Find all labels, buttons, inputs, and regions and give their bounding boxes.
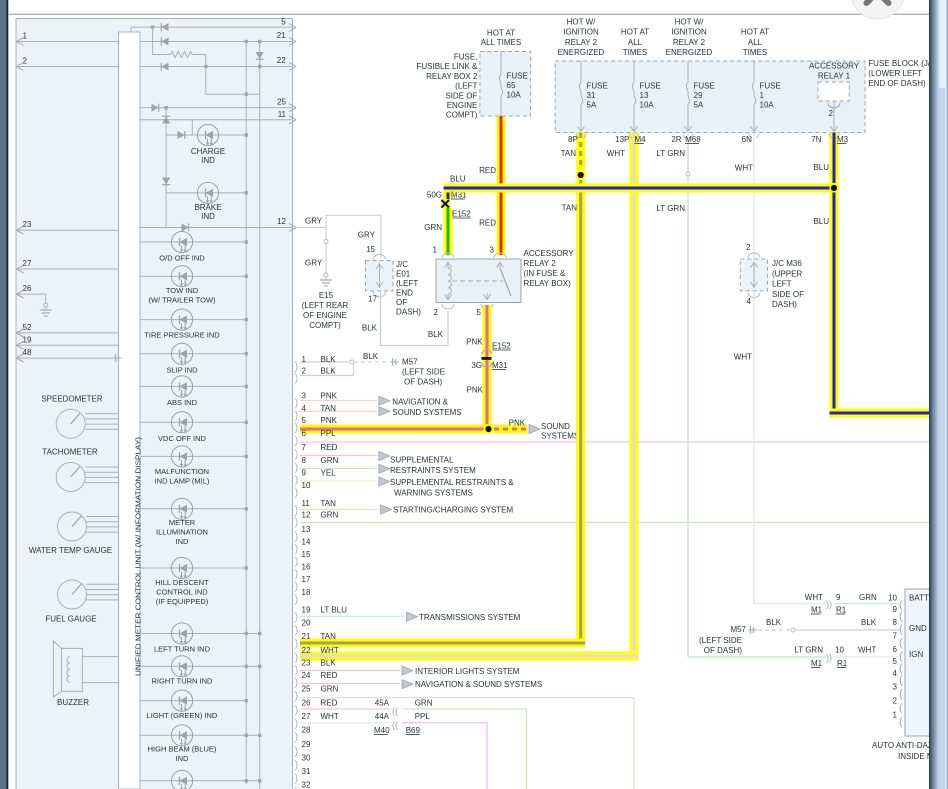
- svg-text:24: 24: [302, 671, 311, 680]
- wire WHT horizontal to pin22: [300, 652, 639, 661]
- svg-text:GRY: GRY: [305, 259, 323, 268]
- ground (pin 26): [44, 303, 48, 307]
- svg-text:TAN: TAN: [321, 499, 337, 508]
- svg-text:FUSE: FUSE: [760, 82, 781, 91]
- svg-text:O/D OFF IND: O/D OFF IND: [159, 254, 205, 263]
- svg-text:1: 1: [302, 355, 307, 364]
- svg-text:FUSE: FUSE: [694, 82, 715, 91]
- svg-text:LT GRN: LT GRN: [656, 204, 685, 213]
- svg-text:(: (: [899, 702, 903, 714]
- svg-text:(: (: [899, 624, 903, 636]
- svg-text:1: 1: [760, 91, 765, 100]
- svg-text:RED: RED: [321, 443, 338, 452]
- svg-text:(: (: [899, 716, 903, 728]
- svg-text:M31: M31: [492, 361, 508, 370]
- svg-text:ILLUMINATION: ILLUMINATION: [156, 528, 208, 537]
- svg-text:ENERGIZED: ENERGIZED: [558, 48, 605, 57]
- svg-text:FUSE: FUSE: [587, 82, 608, 91]
- svg-text:(: (: [899, 663, 903, 675]
- svg-text:HOT W/: HOT W/: [567, 18, 597, 27]
- svg-text:M1: M1: [811, 659, 823, 668]
- svg-text:GRY: GRY: [358, 231, 376, 240]
- svg-text:(UPPER: (UPPER: [772, 269, 802, 278]
- svg-text:): ): [295, 543, 299, 555]
- wire pin3 PNK: [300, 400, 377, 402]
- svg-text:SPEEDOMETER: SPEEDOMETER: [41, 395, 103, 404]
- svg-text:BUZZER: BUZZER: [57, 698, 89, 707]
- svg-text:LT GRN: LT GRN: [656, 149, 685, 158]
- wire BLU from 7N: [830, 133, 839, 189]
- svg-text:FUSE: FUSE: [507, 72, 528, 81]
- svg-text:): ): [295, 505, 299, 517]
- fuse block pin brackets: [576, 134, 586, 139]
- svg-text:17: 17: [368, 295, 377, 304]
- svg-text:GRN: GRN: [859, 593, 877, 602]
- diode D6 on pin12 line: [182, 223, 189, 231]
- svg-text:13P: 13P: [615, 135, 629, 144]
- svg-text:): ): [295, 422, 299, 434]
- diode D1 on pin5 line: [161, 23, 168, 31]
- svg-text:ACCESSORY: ACCESSORY: [809, 62, 860, 71]
- svg-text:4: 4: [747, 297, 752, 306]
- bus vertical left x166: [165, 108, 167, 228]
- svg-text:INTERIOR LIGHTS SYSTEM: INTERIOR LIGHTS SYSTEM: [415, 667, 520, 676]
- svg-text:GRN: GRN: [321, 456, 339, 465]
- wire pin27 WHT to connector: [300, 722, 391, 724]
- lamp TIRE PRESSURE IND: [140, 319, 246, 321]
- svg-text:FUSE,: FUSE,: [454, 53, 478, 62]
- wire staircase: [206, 55, 260, 95]
- svg-text:9: 9: [836, 593, 841, 602]
- svg-text:): ): [295, 581, 299, 593]
- wire BLK dashed to M57: [354, 361, 388, 363]
- svg-text:LT BLU: LT BLU: [321, 606, 348, 615]
- wire WHT from 13P: [630, 133, 639, 657]
- wire pin21 line: [16, 41, 293, 43]
- svg-text:11: 11: [278, 110, 287, 119]
- svg-text:6N: 6N: [742, 135, 752, 144]
- svg-text:): ): [295, 516, 299, 528]
- svg-text:IND LAMP (MIL): IND LAMP (MIL): [155, 477, 210, 486]
- junction J/C E01: [374, 255, 386, 298]
- svg-text:IND: IND: [176, 754, 190, 763]
- svg-text:14: 14: [302, 538, 311, 547]
- svg-text:GRN: GRN: [415, 699, 433, 708]
- svg-text:WHT: WHT: [734, 353, 752, 362]
- svg-text:(LEFT: (LEFT: [396, 279, 418, 288]
- wire pin25 GRN: [300, 698, 634, 789]
- diode D7 up on bus: [162, 116, 170, 123]
- arrow supplemental restraints 2: [379, 464, 390, 473]
- svg-text:GRN: GRN: [321, 685, 339, 694]
- wire BLU corner down: [444, 184, 453, 200]
- svg-text:): ): [295, 474, 299, 486]
- svg-text:): ): [295, 624, 299, 636]
- svg-text:1: 1: [23, 32, 28, 41]
- svg-text:J/C: J/C: [396, 260, 408, 269]
- svg-text:IND: IND: [201, 156, 215, 165]
- diode D3 on pin22 line: [161, 62, 168, 70]
- svg-text:27: 27: [23, 259, 32, 268]
- svg-text:(LEFT SIDE: (LEFT SIDE: [699, 636, 742, 645]
- svg-text:): ): [295, 637, 299, 649]
- gauge WATER TEMP GAUGE: [86, 516, 119, 518]
- svg-text:WHT: WHT: [735, 164, 753, 173]
- svg-text:M4: M4: [635, 135, 647, 144]
- svg-text:25: 25: [277, 98, 286, 107]
- wire link line11 to charge: [191, 120, 193, 135]
- svg-text:): ): [295, 449, 299, 461]
- gauge FUEL GAUGE: [86, 583, 119, 585]
- lamp bottom indicator: [140, 780, 260, 782]
- svg-text:27: 27: [302, 712, 311, 721]
- wire pin12 GRN long: [300, 522, 931, 524]
- svg-text:OF DASH): OF DASH): [404, 378, 443, 387]
- svg-text:WHT: WHT: [858, 646, 876, 655]
- svg-text:3: 3: [893, 683, 898, 692]
- wire WHT from J/C M36 pin4 to mirror: [754, 291, 826, 604]
- svg-text:23: 23: [23, 220, 32, 229]
- svg-text:52: 52: [23, 323, 32, 332]
- wire GRY pin12 to junction: [296, 227, 326, 229]
- lamp SLIP IND: [140, 353, 246, 355]
- svg-text:DASH): DASH): [396, 308, 421, 317]
- svg-text:RELAY 1: RELAY 1: [818, 72, 851, 81]
- svg-text:TIMES: TIMES: [623, 48, 647, 57]
- svg-text:E01: E01: [396, 270, 411, 279]
- svg-text:LEFT: LEFT: [772, 280, 792, 289]
- wire BLK from J/C E01 pin17: [381, 291, 449, 346]
- svg-text:11: 11: [302, 499, 311, 508]
- svg-text:31: 31: [587, 91, 596, 100]
- svg-text:15: 15: [302, 550, 311, 559]
- svg-text:5: 5: [281, 18, 286, 27]
- svg-text:M40: M40: [374, 726, 390, 735]
- svg-text:16: 16: [302, 563, 311, 572]
- svg-text:2: 2: [746, 243, 751, 252]
- svg-text:(LEFT REAR: (LEFT REAR: [302, 301, 349, 310]
- wire LT GRN from 2R: [687, 133, 689, 658]
- svg-text:PPL: PPL: [321, 429, 337, 438]
- svg-text:FUEL GAUGE: FUEL GAUGE: [45, 615, 96, 624]
- splice: [791, 628, 795, 632]
- svg-text:): ): [295, 731, 299, 743]
- svg-text:(: (: [899, 599, 903, 611]
- svg-text:LIGHT (GREEN) IND: LIGHT (GREEN) IND: [147, 711, 218, 720]
- svg-text:21: 21: [277, 31, 286, 40]
- arrow transmissions: [407, 612, 418, 621]
- junction dot TAN: [576, 170, 586, 180]
- svg-text:RELAY 2: RELAY 2: [565, 38, 598, 47]
- wire TAN horizontal to pin21: [300, 639, 585, 648]
- svg-text:6: 6: [893, 645, 898, 654]
- svg-text:OF: OF: [396, 298, 407, 307]
- svg-text:3: 3: [302, 392, 307, 401]
- svg-text:WHT: WHT: [321, 646, 339, 655]
- svg-text:TRANSMISSIONS SYSTEM: TRANSMISSIONS SYSTEM: [419, 613, 521, 622]
- svg-text:BLK: BLK: [321, 355, 337, 364]
- svg-text:BRAKE: BRAKE: [194, 203, 221, 212]
- wire pin5 line: [131, 26, 293, 28]
- svg-text:19: 19: [302, 606, 311, 615]
- svg-text:TAN: TAN: [562, 204, 578, 213]
- svg-text:): ): [295, 677, 299, 689]
- svg-text:): ): [295, 361, 299, 373]
- svg-text:13: 13: [302, 525, 311, 534]
- svg-text:5A: 5A: [587, 101, 597, 110]
- wire charge branch: [166, 134, 246, 136]
- svg-text:CHARGE: CHARGE: [191, 147, 225, 156]
- arrow sound systems: [529, 425, 540, 434]
- svg-text:MALFUNCTION: MALFUNCTION: [155, 467, 209, 476]
- svg-text:E15: E15: [319, 291, 334, 300]
- svg-text:25: 25: [302, 685, 311, 694]
- svg-text:RELAY BOX): RELAY BOX): [524, 279, 572, 288]
- svg-text:): ): [295, 594, 299, 606]
- fuse box FUSE 65: [480, 52, 531, 117]
- svg-text:LT GRN: LT GRN: [794, 646, 823, 655]
- svg-text:5: 5: [893, 657, 898, 666]
- svg-text:OF DASH): OF DASH): [704, 646, 743, 655]
- svg-text:BATT: BATT: [909, 594, 929, 603]
- wire GRN to relay pin1: [444, 208, 453, 256]
- svg-text:PNK: PNK: [321, 392, 338, 401]
- svg-text:RED: RED: [321, 671, 338, 680]
- svg-text:SUPPLEMENTAL RESTRAINTS &: SUPPLEMENTAL RESTRAINTS &: [390, 478, 514, 487]
- wire pin9 YEL: [300, 480, 377, 482]
- wire WHT from 6N: [753, 133, 755, 260]
- arrow supplemental warning: [379, 477, 390, 486]
- svg-text:ALL: ALL: [748, 38, 763, 47]
- svg-text:B69: B69: [406, 726, 421, 735]
- svg-text:6: 6: [302, 429, 307, 438]
- svg-text:BLK: BLK: [321, 659, 337, 668]
- svg-text:BLK: BLK: [362, 324, 378, 333]
- resistor R-illum: [151, 25, 154, 28]
- pnk horizontal to junction: [300, 425, 492, 434]
- lamp HIGH BEAM (BLUE): [140, 734, 260, 736]
- svg-text:STARTING/CHARGING SYSTEM: STARTING/CHARGING SYSTEM: [393, 506, 513, 515]
- svg-text:RELAY 2: RELAY 2: [524, 259, 557, 268]
- wire PNK dashed to sound systems: [494, 425, 528, 434]
- diode D4 down: [256, 52, 264, 59]
- lamp HILL DESCENT: [140, 567, 246, 569]
- svg-text:WARNING SYSTEMS: WARNING SYSTEMS: [394, 489, 473, 498]
- svg-text:29: 29: [694, 91, 703, 100]
- svg-text:COMPT): COMPT): [446, 111, 478, 120]
- svg-text:HOT W/: HOT W/: [675, 18, 705, 27]
- svg-text:HOT AT: HOT AT: [621, 28, 649, 37]
- splice: [686, 172, 690, 176]
- svg-text:29: 29: [302, 740, 311, 749]
- svg-text:5A: 5A: [694, 101, 704, 110]
- relay switch blade: [500, 268, 511, 296]
- svg-text:M57: M57: [402, 358, 418, 367]
- junction dot PNK: [483, 424, 493, 434]
- svg-text:NAVIGATION &: NAVIGATION &: [392, 398, 448, 407]
- svg-text:(: (: [899, 675, 903, 687]
- svg-text:HIGH BEAM (BLUE): HIGH BEAM (BLUE): [148, 745, 217, 754]
- svg-text:PNK: PNK: [466, 338, 483, 347]
- svg-text:26: 26: [302, 699, 311, 708]
- svg-text:)): )): [826, 599, 832, 609]
- arrow navigation & sound: [402, 680, 413, 689]
- svg-text:TOW IND: TOW IND: [166, 286, 199, 295]
- svg-text:)): )): [826, 653, 832, 663]
- svg-text:): ): [295, 611, 299, 623]
- svg-text:BLK: BLK: [861, 618, 877, 627]
- svg-text:12: 12: [277, 217, 286, 226]
- lamp RIGHT TURN IND: [140, 665, 260, 667]
- svg-text:VDC OFF IND: VDC OFF IND: [158, 434, 206, 443]
- svg-text:): ): [295, 690, 299, 702]
- wire PNK from relay pin5: [483, 305, 492, 434]
- lamp TOW IND: [140, 275, 246, 277]
- fuse 31: [580, 61, 582, 83]
- svg-text:BLU: BLU: [813, 163, 829, 172]
- svg-text:SOUND SYSTEMS: SOUND SYSTEMS: [392, 408, 461, 417]
- svg-text:44A: 44A: [375, 712, 390, 721]
- wire pin12 line: [140, 227, 293, 229]
- svg-text:GRN: GRN: [424, 223, 442, 232]
- svg-text:RELAY 2: RELAY 2: [673, 38, 706, 47]
- svg-text:TACHOMETER: TACHOMETER: [42, 448, 98, 457]
- svg-text:SOUND: SOUND: [541, 422, 570, 431]
- wire TAN vertical solid: [576, 180, 585, 643]
- svg-text:SIDE OF: SIDE OF: [772, 290, 804, 299]
- svg-text:): ): [295, 718, 299, 730]
- svg-text:): ): [295, 435, 299, 447]
- svg-text:END OF DASH): END OF DASH): [868, 79, 926, 88]
- svg-text:RED: RED: [321, 699, 338, 708]
- lamp METER: [140, 508, 246, 510]
- svg-text:): ): [295, 397, 299, 409]
- svg-text:WATER TEMP GAUGE: WATER TEMP GAUGE: [29, 546, 112, 555]
- lamp O/D OFF IND: [140, 241, 246, 243]
- svg-text:8: 8: [302, 456, 307, 465]
- svg-text:IGNITION: IGNITION: [671, 28, 707, 37]
- junction dot BLU: [829, 183, 839, 193]
- wire pin26 GRN continues: [403, 709, 527, 789]
- lamp ABS IND: [140, 385, 246, 387]
- svg-text:BLU: BLU: [450, 175, 466, 184]
- svg-text:FUSIBLE LINK &: FUSIBLE LINK &: [416, 62, 478, 71]
- wire TAN from 8P (dashed section): [576, 133, 585, 171]
- svg-text:ENGINE: ENGINE: [447, 101, 478, 110]
- svg-text:): ): [295, 759, 299, 771]
- connector splice (pin 48): [113, 357, 122, 359]
- svg-text:DASH): DASH): [772, 300, 797, 309]
- unified meter control unit column: [119, 32, 141, 789]
- svg-text:TAN: TAN: [561, 149, 577, 158]
- svg-text:SUPPLEMENTAL: SUPPLEMENTAL: [390, 456, 454, 465]
- wire pin4 TAN: [300, 410, 377, 412]
- wire GRY junction to J/C E01 pin 15: [326, 215, 381, 258]
- svg-text:15: 15: [366, 245, 375, 254]
- svg-text:ALL: ALL: [628, 38, 643, 47]
- splice: [324, 240, 328, 244]
- svg-text:SIDE OF: SIDE OF: [445, 91, 477, 100]
- svg-text:M68: M68: [685, 135, 701, 144]
- svg-text:WHT: WHT: [805, 593, 823, 602]
- wire pin2 BLK: [300, 362, 354, 376]
- wire BLU horizontal main (over crossings): [453, 184, 830, 193]
- svg-text:IND: IND: [201, 212, 215, 221]
- lamp CHARGE IND: [197, 124, 218, 145]
- svg-text:RELAY BOX 2: RELAY BOX 2: [426, 72, 478, 81]
- svg-text:HOT AT: HOT AT: [741, 28, 769, 37]
- svg-text:26: 26: [23, 284, 32, 293]
- svg-text:2R: 2R: [671, 135, 681, 144]
- svg-text:10: 10: [302, 481, 311, 490]
- connector E152/M31 on wire: [441, 199, 450, 208]
- lamp LEFT TURN IND: [140, 633, 260, 635]
- connector AUTO ANTI-DAZZLE INSIDE MIRROR: [905, 589, 945, 736]
- wire pin11 TAN: [300, 509, 379, 511]
- svg-text:32: 32: [302, 781, 311, 789]
- svg-text:65: 65: [507, 81, 516, 90]
- wire WHT to mirror pin6: [834, 656, 899, 658]
- relay dashed actuate line: [452, 280, 503, 282]
- arrow navigation/sound 2: [379, 407, 390, 416]
- svg-text:22: 22: [302, 646, 311, 655]
- close button: [851, 0, 905, 19]
- arrow interior lights: [402, 666, 413, 675]
- wire RED from fuse 65: [497, 116, 506, 255]
- svg-text:(LOWER LEFT: (LOWER LEFT: [868, 69, 922, 78]
- wire pin23 BLK: [300, 670, 400, 672]
- wire pin6 PPL long: [300, 441, 931, 443]
- svg-text:((: ((: [392, 706, 398, 716]
- svg-text:OF ENGINE: OF ENGINE: [303, 311, 347, 320]
- svg-text:BLK: BLK: [363, 352, 379, 361]
- svg-text:7: 7: [893, 632, 898, 641]
- svg-text:8: 8: [893, 618, 898, 627]
- svg-text:(: (: [899, 688, 903, 700]
- svg-text:5: 5: [477, 308, 482, 317]
- svg-text:(LEFT SIDE: (LEFT SIDE: [402, 368, 445, 377]
- svg-text:10A: 10A: [507, 91, 522, 100]
- wire pin22 line: [16, 66, 293, 68]
- svg-text:): ): [295, 462, 299, 474]
- wire GRY junction down to ground: [325, 215, 327, 273]
- svg-text:(IN FUSE &: (IN FUSE &: [524, 269, 566, 278]
- fuse 29: [687, 61, 689, 83]
- svg-text:ENERGIZED: ENERGIZED: [666, 48, 713, 57]
- svg-text:10: 10: [835, 646, 844, 655]
- svg-text:): ): [295, 746, 299, 758]
- svg-text:PNK: PNK: [467, 386, 484, 395]
- svg-text:FUSE: FUSE: [640, 82, 661, 91]
- svg-text:TAN: TAN: [321, 404, 337, 413]
- svg-text:METER: METER: [169, 518, 196, 527]
- svg-text:SYSTEMS: SYSTEMS: [541, 431, 579, 440]
- svg-text:COMPT): COMPT): [309, 321, 341, 330]
- svg-text:M3: M3: [837, 135, 849, 144]
- svg-text:BLK: BLK: [766, 618, 782, 627]
- svg-text:BLU: BLU: [813, 217, 829, 226]
- buzzer: [53, 641, 61, 697]
- svg-text:GRY: GRY: [305, 217, 323, 226]
- svg-text:R1: R1: [836, 606, 847, 615]
- frame top line: [8, 13, 932, 15]
- wire pin11 line: [140, 119, 293, 121]
- svg-text:9: 9: [302, 469, 307, 478]
- svg-text:7: 7: [302, 443, 307, 452]
- svg-text:): ): [295, 664, 299, 676]
- svg-text:5: 5: [302, 416, 307, 425]
- svg-text:20: 20: [302, 619, 311, 628]
